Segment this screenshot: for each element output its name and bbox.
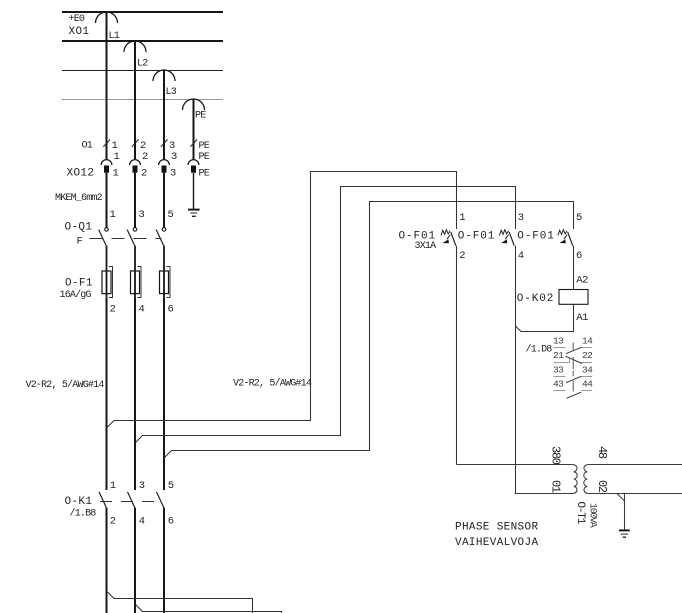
slash wire2 bbox=[132, 139, 139, 146]
ground T1 bbox=[619, 530, 630, 537]
wire 1 below Q1 bbox=[106, 246, 108, 298]
svg-text:3: 3 bbox=[518, 212, 524, 224]
svg-text:1: 1 bbox=[113, 168, 119, 180]
svg-text:33: 33 bbox=[553, 364, 564, 375]
aux contact 21-22 bbox=[553, 350, 593, 364]
svg-text:43: 43 bbox=[553, 379, 564, 390]
svg-text:O-K02: O-K02 bbox=[517, 293, 555, 305]
svg-text:VAIHEVALVOJA: VAIHEVALVOJA bbox=[455, 537, 538, 549]
svg-text:380: 380 bbox=[549, 446, 563, 465]
svg-text:PHASE SENSOR: PHASE SENSOR bbox=[455, 521, 538, 533]
svg-text:4: 4 bbox=[139, 515, 145, 527]
ground tap branch bbox=[617, 494, 625, 531]
wire PE to ground bbox=[193, 173, 195, 209]
svg-text:A1: A1 bbox=[576, 312, 588, 324]
wire below F01-3 bbox=[573, 246, 575, 290]
svg-text:L1: L1 bbox=[109, 31, 120, 42]
wire 1 bottom bbox=[106, 508, 108, 613]
aux contact 13-14 bbox=[553, 336, 593, 354]
svg-text:4: 4 bbox=[139, 304, 145, 316]
slash wire PE bbox=[190, 139, 197, 146]
svg-text:1: 1 bbox=[114, 151, 120, 163]
wire below coil bbox=[516, 304, 574, 331]
svg-text:02: 02 bbox=[595, 480, 609, 493]
transformer primary lead and winding bbox=[457, 465, 578, 494]
svg-text:6: 6 bbox=[576, 250, 582, 262]
svg-text:48: 48 bbox=[595, 446, 609, 459]
svg-text:PE: PE bbox=[199, 152, 210, 163]
branch wire1 to F01-1 bbox=[107, 172, 457, 429]
svg-text:2: 2 bbox=[110, 304, 116, 316]
aux contact 33-34 bbox=[553, 364, 593, 382]
fuse 1 bracket bbox=[109, 267, 113, 298]
O-Q1 pole 3 blade bbox=[156, 230, 163, 246]
O-Q1 mechanical link bbox=[90, 238, 162, 240]
terminal arc PE bbox=[188, 160, 199, 165]
wire 1 mid bbox=[106, 173, 108, 228]
branch wire3 to F01-3 bbox=[164, 202, 574, 459]
svg-text:/1.B8: /1.B8 bbox=[70, 508, 97, 520]
wire L2 upper bbox=[134, 41, 136, 160]
svg-text:XO12: XO12 bbox=[67, 168, 95, 180]
svg-text:O-T1: O-T1 bbox=[574, 502, 586, 525]
aux actuator line bbox=[572, 343, 574, 392]
svg-text:L3: L3 bbox=[166, 87, 177, 98]
wire L3 upper bbox=[163, 70, 165, 160]
svg-text:14: 14 bbox=[582, 336, 593, 347]
svg-text:O1: O1 bbox=[82, 141, 93, 152]
terminal arc 2 bbox=[130, 160, 141, 165]
bus L2 bbox=[62, 40, 223, 42]
K1 mechanical link bbox=[100, 501, 162, 503]
wire 3 below Q1 bbox=[163, 246, 165, 298]
ground PE bbox=[188, 210, 200, 217]
svg-text:V2-R2, 5/AWG#14: V2-R2, 5/AWG#14 bbox=[26, 379, 105, 391]
svg-text:PE: PE bbox=[199, 141, 210, 152]
fuse 2 bracket bbox=[137, 267, 141, 298]
O-Q1 pole 3 circle bbox=[162, 228, 166, 232]
svg-text:2: 2 bbox=[459, 250, 465, 262]
fuse 1 body bbox=[102, 271, 111, 294]
slash wire1 bbox=[103, 139, 110, 146]
svg-text:6: 6 bbox=[168, 515, 174, 527]
relay coil O-K02 body bbox=[559, 290, 588, 305]
O-Q1 pole 2 circle bbox=[133, 228, 137, 232]
svg-text:+E0: +E0 bbox=[69, 14, 85, 25]
svg-text:2: 2 bbox=[141, 168, 147, 180]
svg-text:5: 5 bbox=[168, 480, 174, 492]
terminal block PE bbox=[191, 166, 196, 173]
svg-text:V2-R2, 5/AWG#14: V2-R2, 5/AWG#14 bbox=[233, 378, 312, 390]
bottom branch wire2 bbox=[135, 604, 282, 613]
svg-text:/1.D8: /1.D8 bbox=[526, 343, 553, 355]
O-Q1 pole 2 blade bbox=[127, 230, 134, 246]
svg-text:3: 3 bbox=[139, 480, 145, 492]
svg-text:O-K1: O-K1 bbox=[65, 496, 93, 508]
svg-text:O-F1: O-F1 bbox=[65, 278, 93, 290]
terminal arc 1 bbox=[101, 160, 112, 165]
svg-text:O-F01: O-F01 bbox=[458, 231, 496, 243]
svg-text:44: 44 bbox=[582, 379, 593, 390]
wire 2 below Q1 bbox=[134, 246, 136, 298]
svg-text:XO1: XO1 bbox=[69, 26, 90, 38]
svg-text:5: 5 bbox=[576, 212, 582, 224]
wire below F01-2 bbox=[515, 246, 517, 494]
K1 pole 2 blade bbox=[128, 492, 135, 508]
aux contact 43-44 bbox=[553, 379, 593, 399]
transformer secondary winding and leads bbox=[584, 465, 682, 494]
branch wire2 to F01-2 bbox=[135, 187, 516, 444]
wire 3 mid bbox=[163, 173, 165, 228]
svg-text:O-Q1: O-Q1 bbox=[65, 222, 93, 234]
svg-text:2: 2 bbox=[110, 515, 116, 527]
F01 pole 2 bbox=[499, 230, 514, 246]
svg-text:01: 01 bbox=[549, 480, 563, 493]
terminal block 1 bbox=[104, 166, 109, 173]
wire 2 lower bbox=[134, 298, 136, 490]
F01 pole 3 bbox=[558, 230, 573, 246]
fuse 3 body bbox=[160, 271, 169, 294]
bus PE bbox=[62, 99, 223, 101]
svg-text:6: 6 bbox=[168, 304, 174, 316]
svg-text:16A/gG: 16A/gG bbox=[60, 289, 92, 301]
fuse 2 body bbox=[131, 271, 140, 294]
svg-text:3: 3 bbox=[139, 209, 145, 221]
wire 2 mid bbox=[134, 173, 136, 228]
svg-text:F: F bbox=[77, 236, 83, 248]
svg-text:100VA: 100VA bbox=[587, 503, 598, 528]
K1 pole 3 blade bbox=[157, 492, 164, 508]
F01 pole 1 bbox=[441, 230, 456, 246]
wire L1 upper bbox=[106, 12, 108, 160]
svg-text:A2: A2 bbox=[576, 274, 588, 286]
svg-text:3: 3 bbox=[171, 151, 177, 163]
wire below F01-1 bbox=[456, 246, 458, 465]
svg-text:13: 13 bbox=[553, 336, 564, 347]
wire 1 lower bbox=[106, 298, 108, 490]
svg-text:34: 34 bbox=[582, 364, 593, 375]
svg-text:2: 2 bbox=[142, 151, 148, 163]
svg-text:L2: L2 bbox=[137, 59, 148, 70]
svg-text:MKEM_6mm2: MKEM_6mm2 bbox=[55, 193, 103, 204]
svg-text:1: 1 bbox=[110, 480, 116, 492]
terminal block 3 bbox=[162, 166, 167, 173]
svg-text:3X1A: 3X1A bbox=[415, 241, 437, 252]
tap arc L3 bbox=[153, 70, 175, 81]
bottom branch wire1 bbox=[107, 591, 253, 613]
svg-text:22: 22 bbox=[582, 350, 593, 361]
svg-text:4: 4 bbox=[518, 250, 524, 262]
bus L3 bbox=[62, 70, 223, 72]
tap arc PE bbox=[183, 99, 205, 110]
O-Q1 pole 1 blade bbox=[99, 230, 106, 246]
svg-text:1: 1 bbox=[459, 212, 465, 224]
svg-text:21: 21 bbox=[553, 350, 564, 361]
K1 pole 1 blade bbox=[99, 492, 106, 508]
wire 3 lower bbox=[163, 298, 165, 490]
O-Q1 pole 1 circle bbox=[105, 228, 109, 232]
fuse 3 bracket bbox=[166, 267, 170, 298]
svg-text:5: 5 bbox=[168, 209, 174, 221]
svg-text:O-F01: O-F01 bbox=[517, 231, 555, 243]
svg-text:PE: PE bbox=[195, 111, 206, 122]
wire 2 bottom bbox=[134, 508, 136, 613]
bus L1 bbox=[62, 11, 223, 13]
svg-text:3: 3 bbox=[170, 168, 176, 180]
tap arc L1 bbox=[96, 12, 118, 23]
slash wire3 bbox=[161, 139, 168, 146]
svg-text:1: 1 bbox=[110, 209, 116, 221]
wire 3 bottom bbox=[163, 508, 165, 613]
svg-text:PE: PE bbox=[199, 169, 210, 180]
terminal arc 3 bbox=[159, 160, 170, 165]
terminal block 2 bbox=[133, 166, 138, 173]
tap arc L2 bbox=[124, 41, 146, 52]
wire PE upper bbox=[193, 99, 195, 160]
